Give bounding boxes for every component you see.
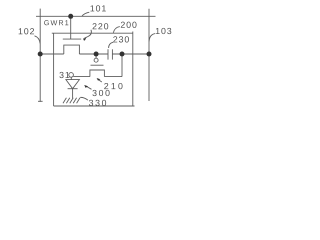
wire rail2 mid segment [79, 53, 108, 55]
leader 200 [113, 27, 120, 33]
box 200 enclosure [52, 32, 135, 107]
leader 300 [85, 86, 91, 90]
label 210 [104, 83, 122, 89]
contact 220 lower electrode bump [64, 45, 80, 54]
label 310txt [59, 72, 69, 78]
wire GWR1 drop from top rail [70, 16, 72, 39]
label GWR1 [44, 20, 68, 25]
wire rail2 left segment [40, 53, 64, 55]
junction dot rail2 at 103 [147, 52, 152, 57]
diode 310 top stub [70, 77, 72, 79]
diode 310 cathode bar [68, 88, 78, 90]
junction dot GWR1 on top rail [68, 14, 73, 19]
label 300 [92, 90, 109, 96]
arrowhead 210 [97, 78, 101, 81]
capacitor 230 right plate [111, 49, 113, 59]
ground 330 hatching [63, 98, 80, 103]
leader 210 [98, 79, 102, 82]
leader 230 [109, 42, 114, 48]
arrowhead 300 [84, 85, 88, 88]
junction dot rail2 at 102 [38, 52, 43, 57]
spark gap 210 bar electrode [91, 64, 104, 66]
contact 220 upper bar electrode [63, 38, 81, 40]
wire lower right segment [104, 76, 122, 78]
wire vertical line 103 [148, 9, 150, 101]
label 200 [121, 22, 137, 28]
leader 103 [149, 34, 155, 42]
leader 330 [80, 97, 88, 100]
wire lower left to diode ring [73, 76, 90, 78]
diode 310 triangle [66, 80, 80, 89]
spark gap 210 lower bump [90, 70, 105, 77]
wire riser to rail2 dot [121, 54, 123, 77]
leader 220 [83, 30, 91, 39]
spark gap 210 upper circle electrode [94, 58, 98, 62]
label 230 [113, 36, 129, 42]
arrowhead 220 [83, 37, 87, 40]
diode 310 bottom stub [72, 89, 74, 99]
wire vertical line 102 [39, 9, 41, 102]
capacitor 230 left plate [107, 49, 109, 59]
label 101 [90, 5, 105, 11]
junction dot rail2 at riser [120, 52, 125, 57]
label 103 [156, 28, 171, 34]
junction dot rail2 at spark gap [94, 52, 99, 57]
wire top rail 101 [36, 15, 156, 17]
label 220 [93, 23, 109, 29]
end tick 102 [38, 100, 43, 102]
spark gap 210 upper stub [95, 54, 97, 58]
leader 101 [82, 12, 89, 16]
label 330 [89, 100, 106, 106]
leader 102 [35, 36, 41, 44]
label 102 [19, 28, 34, 34]
terminal ring 310 (zero of label doubles as terminal) [69, 73, 74, 78]
wire rail2 right segment [112, 53, 150, 55]
